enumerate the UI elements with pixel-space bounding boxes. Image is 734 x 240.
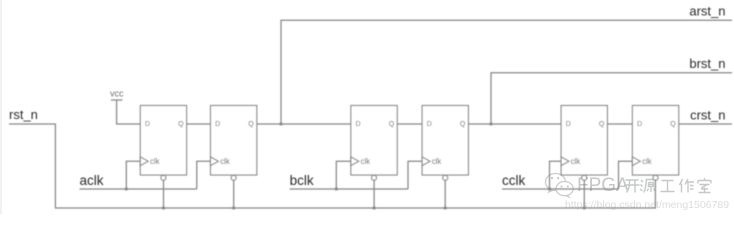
svg-text:bclk: bclk <box>290 173 314 188</box>
svg-text:https://blog.csdn.net/meng1506: https://blog.csdn.net/meng1506789 <box>565 199 729 211</box>
svg-text:aclk: aclk <box>80 173 104 188</box>
svg-text:cclk: cclk <box>502 173 525 188</box>
svg-text:rst_n: rst_n <box>9 107 38 122</box>
svg-text:brst_n: brst_n <box>689 56 725 71</box>
svg-text:crst_n: crst_n <box>690 108 725 123</box>
svg-text:vcc: vcc <box>110 88 124 98</box>
svg-text:arst_n: arst_n <box>689 4 725 19</box>
